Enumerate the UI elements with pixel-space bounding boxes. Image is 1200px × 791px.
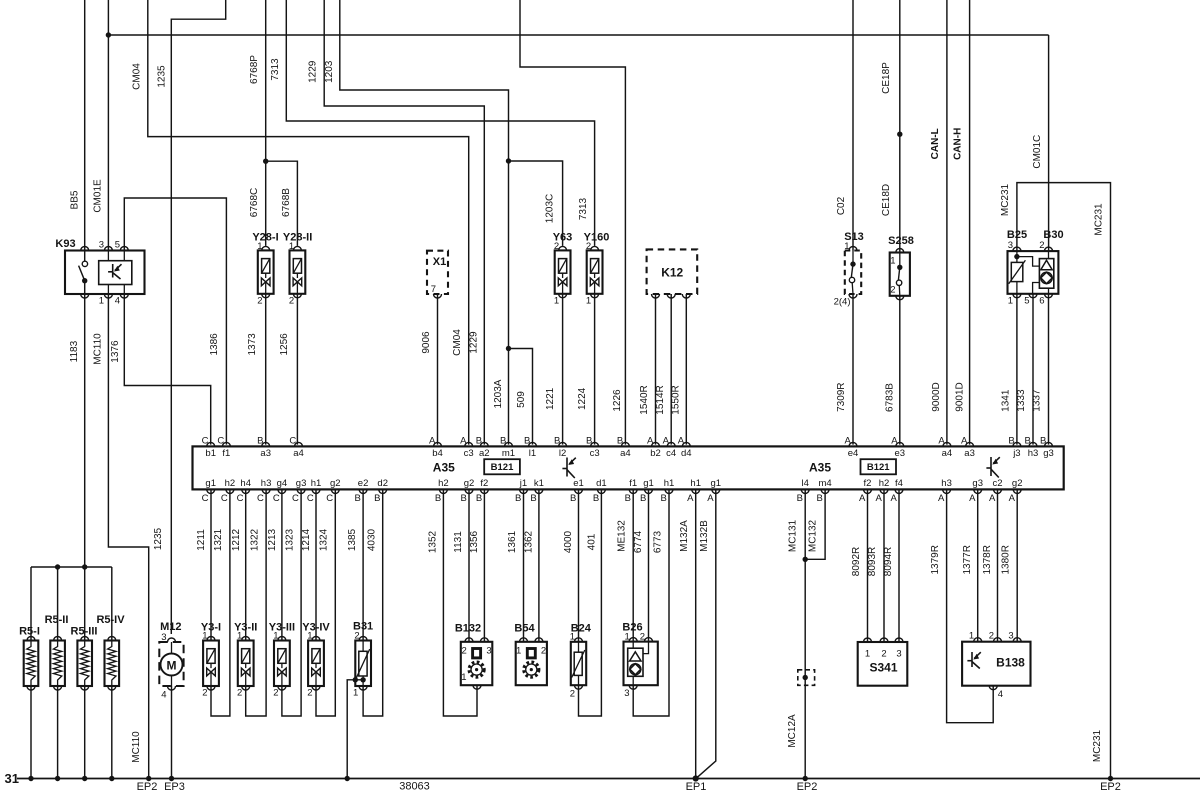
- svg-text:3: 3: [99, 240, 104, 251]
- solenoid valve Y28-II: [290, 250, 306, 293]
- wire 6768B branch to Y28-II: [266, 161, 298, 246]
- svg-text:4: 4: [998, 689, 1003, 700]
- svg-text:h4: h4: [240, 478, 251, 489]
- connector MC12A inline (dashed): [798, 670, 815, 686]
- svg-text:d2: d2: [377, 478, 388, 489]
- svg-text:B: B: [530, 493, 536, 504]
- node 1203A/509 junction: [506, 346, 511, 351]
- B25 thermistor element: [1011, 262, 1023, 281]
- svg-text:g2: g2: [1012, 478, 1023, 489]
- svg-text:C: C: [221, 493, 228, 504]
- wire 6773 (B26 return to ECU h1): [633, 489, 669, 716]
- svg-text:g1: g1: [205, 478, 216, 489]
- A35 internal transistor symbol (right): [986, 457, 999, 478]
- svg-text:h1: h1: [690, 478, 701, 489]
- A35 bottom pin f4 (A): [895, 489, 903, 493]
- wire 4000 (ECU to B24 pin1): [578, 489, 580, 641]
- svg-text:8094R: 8094R: [883, 547, 894, 576]
- svg-text:h1: h1: [664, 478, 675, 489]
- switch S13: [845, 251, 861, 295]
- svg-text:C: C: [292, 493, 299, 504]
- svg-text:R5-III: R5-III: [71, 626, 98, 638]
- svg-text:6783B: 6783B: [884, 383, 895, 412]
- svg-text:1214: 1214: [301, 528, 312, 551]
- A35 bottom pin c2 (A): [994, 489, 1002, 493]
- wire 1226 (to ECU pin a4): [520, 0, 625, 445]
- svg-text:A: A: [859, 493, 866, 504]
- svg-text:1: 1: [202, 631, 207, 642]
- svg-text:l4: l4: [801, 478, 808, 489]
- A35 bottom pin g2 (A): [1013, 489, 1021, 493]
- wire MC132 (ECU m4 joining MC131): [805, 489, 825, 559]
- svg-text:MC231: MC231: [1094, 203, 1105, 236]
- svg-text:1226: 1226: [612, 389, 623, 412]
- A35 top pin b2 (A): [652, 442, 660, 446]
- A35 bottom pin f1 (B): [629, 489, 637, 493]
- wire 1229 (to ECU pin a2): [324, 0, 484, 445]
- svg-text:A35: A35: [809, 461, 831, 475]
- A35 bottom pin h1 (C): [312, 489, 320, 493]
- svg-text:2: 2: [890, 285, 895, 296]
- svg-text:CAN-L: CAN-L: [930, 128, 941, 159]
- svg-text:B: B: [460, 493, 466, 504]
- B31 thermistor element: [359, 651, 367, 676]
- svg-text:1221: 1221: [545, 387, 556, 410]
- svg-text:1213: 1213: [267, 528, 278, 551]
- svg-text:B: B: [257, 436, 263, 447]
- svg-text:h3: h3: [1028, 448, 1039, 459]
- wire 1203 (to Y63 / ECU pins m1,l1): [340, 0, 509, 445]
- A35 bottom pin h3 (A): [943, 489, 951, 493]
- svg-text:6: 6: [1039, 296, 1044, 307]
- svg-text:K93: K93: [55, 238, 75, 250]
- sensor B54 (speed sensor): [516, 642, 547, 685]
- A35 top pin e3 (A): [896, 442, 904, 446]
- wire 1379R (ECU h3 to B138 pin4 return): [947, 489, 994, 722]
- svg-text:R5-II: R5-II: [45, 614, 69, 626]
- svg-text:A: A: [938, 493, 945, 504]
- svg-text:a3: a3: [260, 448, 271, 459]
- node R5-I ground junction: [28, 776, 33, 781]
- svg-text:C: C: [289, 436, 296, 447]
- svg-text:B: B: [1008, 436, 1014, 447]
- svg-text:1: 1: [844, 241, 849, 252]
- wire 1356 (ECU to B132 pin3): [483, 489, 485, 641]
- svg-text:A: A: [707, 493, 714, 504]
- wire 1362 (ECU to B54 pin2): [538, 489, 540, 641]
- A35 bottom pin h1 (A): [692, 489, 700, 493]
- svg-text:38063: 38063: [399, 781, 430, 791]
- resistor R5-I (glow plug): [24, 641, 39, 687]
- svg-text:A: A: [961, 436, 968, 447]
- solenoid valve Y63: [555, 250, 571, 293]
- svg-text:1376: 1376: [110, 340, 121, 363]
- svg-text:9000D: 9000D: [931, 382, 942, 411]
- B30 sensor sub-box: [1039, 259, 1053, 289]
- wire 1373 (Y28-I to ECU a3): [265, 294, 267, 445]
- A35 bottom pin h2 (B): [439, 489, 447, 493]
- svg-text:1: 1: [516, 646, 521, 657]
- node EP1 ground junction: [693, 775, 699, 781]
- svg-text:e2: e2: [358, 478, 369, 489]
- svg-text:1379R: 1379R: [930, 545, 941, 574]
- svg-text:1: 1: [586, 296, 591, 307]
- A35 top pin c4 (A): [667, 442, 675, 446]
- svg-text:1337: 1337: [1032, 389, 1043, 412]
- svg-text:1: 1: [307, 631, 312, 642]
- node CM01E tap junction: [106, 32, 111, 37]
- svg-text:1203A: 1203A: [493, 379, 504, 408]
- svg-text:A: A: [663, 436, 670, 447]
- svg-text:1131: 1131: [453, 531, 464, 553]
- B54 toothed wheel: [524, 662, 539, 677]
- svg-text:6773: 6773: [653, 530, 664, 553]
- svg-text:5: 5: [1024, 296, 1029, 307]
- svg-text:f1: f1: [629, 478, 637, 489]
- svg-text:EP2: EP2: [1100, 781, 1121, 791]
- svg-text:1341: 1341: [1001, 389, 1012, 412]
- relay K12: [647, 249, 698, 294]
- A35 top pin m1 (B): [505, 442, 513, 446]
- svg-text:CE18D: CE18D: [881, 184, 892, 216]
- svg-text:B: B: [355, 493, 361, 504]
- B132 hall element: [473, 649, 481, 658]
- K93 switch contact: [84, 251, 86, 262]
- svg-text:B: B: [570, 493, 576, 504]
- svg-text:CE18P: CE18P: [881, 62, 892, 94]
- svg-text:g1: g1: [643, 478, 654, 489]
- svg-text:B132: B132: [455, 623, 481, 635]
- wire R5-IV to ground bus 31: [111, 686, 113, 779]
- svg-text:1378R: 1378R: [982, 545, 993, 574]
- solenoid valve Y160: [587, 250, 603, 293]
- svg-text:B: B: [476, 436, 482, 447]
- wire 8092R (ECU to S341 pin1): [867, 489, 869, 642]
- svg-text:B: B: [640, 493, 646, 504]
- svg-text:f2: f2: [864, 478, 872, 489]
- wire MC110 (K93 pin1 to ground EP2): [108, 294, 148, 779]
- node M12 ground junction EP3: [169, 776, 174, 781]
- svg-text:1323: 1323: [284, 528, 295, 551]
- wire 1221 (Y63 to ECU l2): [562, 294, 564, 445]
- svg-text:R5-I: R5-I: [19, 626, 40, 638]
- A35 bottom pin g4 (C): [278, 489, 286, 493]
- A35 bottom pin h4 (C): [242, 489, 250, 493]
- svg-text:h3: h3: [261, 478, 272, 489]
- svg-text:B: B: [1024, 436, 1030, 447]
- wire 1224 (Y160 to ECU c3): [594, 294, 596, 445]
- wire 1540R (K12 to ECU b2): [655, 294, 657, 445]
- svg-text:B: B: [586, 436, 592, 447]
- wire 1514R (K12 to ECU c4): [670, 294, 672, 445]
- solenoid valve Y3-IV: [308, 641, 324, 687]
- svg-text:1: 1: [865, 649, 870, 660]
- A35 bottom pin g2 (B): [465, 489, 473, 493]
- svg-text:g3: g3: [296, 478, 307, 489]
- svg-text:1550R: 1550R: [670, 385, 681, 414]
- A35 top pin f1 (C): [222, 442, 230, 446]
- svg-text:B: B: [374, 493, 380, 504]
- wire 1378R (ECU to B138 pin2): [997, 489, 999, 641]
- svg-text:3: 3: [161, 632, 166, 643]
- svg-text:2: 2: [570, 689, 575, 700]
- svg-text:1540R: 1540R: [639, 385, 650, 414]
- wire 8094R (ECU to S341 pin3): [898, 489, 900, 642]
- svg-text:K12: K12: [661, 265, 683, 279]
- A35 top pin a3 (A): [966, 442, 974, 446]
- svg-text:h2: h2: [438, 478, 449, 489]
- svg-text:1235: 1235: [153, 527, 164, 550]
- svg-text:B: B: [625, 493, 631, 504]
- resistor R5-IV (glow plug): [105, 641, 120, 687]
- svg-text:1385: 1385: [347, 528, 358, 551]
- wire 401 (B24 return to ECU d1): [579, 489, 602, 716]
- sensor B24 (temperature): [571, 642, 586, 685]
- svg-text:C: C: [307, 493, 314, 504]
- svg-text:j1: j1: [519, 478, 527, 489]
- connector X1: [427, 251, 448, 294]
- svg-text:B: B: [1040, 436, 1046, 447]
- svg-text:a3: a3: [964, 448, 975, 459]
- sensor B138: [962, 642, 1030, 686]
- svg-text:j3: j3: [1012, 448, 1020, 459]
- wire 1352 (B132 return to ECU h2): [443, 489, 477, 716]
- svg-text:c3: c3: [464, 448, 474, 459]
- svg-text:1322: 1322: [249, 528, 260, 551]
- sensor B132 (speed sensor): [461, 642, 493, 685]
- svg-text:1321: 1321: [213, 528, 224, 551]
- K93 driver sub-box: [99, 261, 132, 285]
- svg-text:m1: m1: [502, 448, 515, 459]
- svg-text:1203: 1203: [324, 60, 335, 83]
- svg-text:R5-IV: R5-IV: [96, 614, 125, 626]
- svg-text:3: 3: [624, 688, 629, 699]
- svg-text:M: M: [167, 658, 177, 672]
- svg-text:5: 5: [115, 240, 120, 251]
- svg-text:b4: b4: [432, 448, 443, 459]
- wire 6774 (ECU to B26 pin2): [648, 489, 650, 641]
- A35 bottom pin k1 (B): [535, 489, 543, 493]
- resistor R5-II (glow plug): [50, 641, 65, 687]
- svg-text:C02: C02: [836, 196, 847, 215]
- svg-text:e1: e1: [573, 478, 584, 489]
- svg-text:1361: 1361: [507, 530, 518, 553]
- wire 1333 (B25 pin5 to ECU h3): [1032, 294, 1034, 445]
- wire 1341 (B25 pin1 to ECU j3): [1016, 294, 1018, 445]
- svg-text:MC110: MC110: [93, 333, 104, 365]
- wire CAN-H (to ECU pin a3): [969, 0, 971, 445]
- svg-text:B: B: [797, 493, 803, 504]
- svg-text:A: A: [875, 493, 882, 504]
- svg-text:c4: c4: [666, 448, 676, 459]
- A35 top pin a4 (C): [295, 442, 303, 446]
- svg-text:1324: 1324: [319, 528, 330, 551]
- K93 transistor symbol U: [108, 264, 121, 279]
- wire 1235 (feed to M12 pin 3): [171, 0, 225, 634]
- wire MC131 (ECU l4 down to EP2): [804, 489, 806, 778]
- svg-text:2: 2: [989, 631, 994, 642]
- wire 1324 (Y3-IV return to ECU): [316, 489, 335, 716]
- svg-text:f2: f2: [480, 478, 488, 489]
- wire 509 branch to ECU pin l1: [509, 349, 533, 445]
- wire C02 (to switch S13): [852, 0, 854, 251]
- svg-text:2: 2: [462, 646, 467, 657]
- A35 internal transistor symbol (left): [562, 458, 575, 479]
- wire 1322 (Y3-II return to ECU): [246, 489, 266, 716]
- A35 top pin l1 (B): [529, 442, 537, 446]
- B24 thermistor element: [574, 652, 582, 675]
- A35 bottom pin g1 (B): [645, 489, 653, 493]
- A35 bottom pin g1 (C): [207, 489, 215, 493]
- svg-text:h1: h1: [311, 478, 322, 489]
- svg-text:2: 2: [354, 631, 359, 642]
- wire 1212 (ECU feed to Y3-II): [245, 489, 247, 640]
- A35 top pin d4 (A): [682, 442, 690, 446]
- svg-text:7313: 7313: [578, 197, 589, 220]
- wire 1550R (K12 to ECU d4): [685, 294, 687, 445]
- svg-text:a4: a4: [293, 448, 304, 459]
- A35 bottom pin g1 (A): [712, 489, 720, 493]
- svg-text:8093R: 8093R: [867, 547, 878, 576]
- svg-text:X1: X1: [433, 256, 446, 268]
- A35 top pin a3 (B): [262, 442, 270, 446]
- svg-text:EP2: EP2: [797, 781, 818, 791]
- node R5-IV ground junction: [109, 776, 114, 781]
- A35 bottom pin f2 (A): [864, 489, 872, 493]
- svg-text:509: 509: [516, 391, 527, 408]
- svg-text:2: 2: [257, 296, 262, 307]
- relay K93: [65, 251, 145, 295]
- svg-text:CM01C: CM01C: [1032, 135, 1043, 169]
- svg-text:31: 31: [5, 771, 19, 786]
- svg-text:C: C: [257, 493, 264, 504]
- svg-text:M132B: M132B: [699, 520, 710, 552]
- svg-text:1362: 1362: [524, 530, 535, 553]
- svg-text:1256: 1256: [279, 333, 290, 356]
- svg-text:BB5: BB5: [70, 190, 81, 209]
- svg-text:1: 1: [237, 631, 242, 642]
- wire B31 ground branch to bus 31: [347, 680, 363, 779]
- svg-text:1: 1: [890, 256, 895, 267]
- A35 bottom pin h2 (C): [226, 489, 234, 493]
- svg-text:1: 1: [257, 241, 262, 252]
- A35 bottom pin g3 (A): [974, 489, 982, 493]
- wire CM01E (to K93 pin 3): [107, 0, 109, 251]
- node R5 bus junction (R5-II): [55, 564, 60, 569]
- svg-text:B: B: [515, 493, 521, 504]
- B138 transistor symbol: [967, 652, 980, 669]
- A35 top pin b1 (C): [207, 442, 215, 446]
- module B121 (left): [484, 459, 520, 474]
- svg-text:d4: d4: [681, 448, 692, 459]
- svg-text:2(4): 2(4): [834, 297, 851, 308]
- wire R5-III to ground bus 31: [84, 686, 86, 779]
- svg-text:4: 4: [115, 296, 120, 307]
- svg-text:B121: B121: [491, 462, 514, 473]
- B132 toothed wheel: [469, 662, 484, 677]
- svg-text:e3: e3: [895, 448, 906, 459]
- svg-text:CM04: CM04: [452, 329, 463, 356]
- svg-text:C: C: [202, 436, 209, 447]
- wire 1376 (K93 pin4 to ECU b1): [124, 294, 210, 445]
- svg-text:B: B: [660, 493, 666, 504]
- svg-text:B: B: [817, 493, 823, 504]
- solenoid valve Y28-I: [258, 250, 274, 293]
- wire 6783B (S258 to ECU e3): [899, 296, 901, 445]
- svg-text:Y28-II: Y28-II: [283, 231, 312, 243]
- A35 bottom pin h2 (A): [880, 489, 888, 493]
- wire ME132 (ECU to B26 pin1): [632, 489, 634, 641]
- svg-text:B: B: [593, 493, 599, 504]
- svg-text:MC231: MC231: [1000, 183, 1011, 216]
- wire 6768P (feed to Y28 valves): [265, 0, 267, 246]
- svg-text:4000: 4000: [563, 530, 574, 553]
- node 1203/1203C junction: [506, 158, 511, 163]
- svg-text:1380R: 1380R: [1001, 545, 1012, 574]
- wire 4030 (B31 return to ECU d2): [363, 489, 383, 716]
- svg-text:1: 1: [461, 672, 466, 683]
- svg-text:2: 2: [289, 296, 294, 307]
- svg-text:C: C: [237, 493, 244, 504]
- svg-text:1386: 1386: [209, 333, 220, 356]
- B31 internal ground tap junctions: [360, 677, 365, 682]
- svg-text:1: 1: [554, 296, 559, 307]
- svg-text:g3: g3: [972, 478, 983, 489]
- wire CM01 horizontal rail y=35: [108, 34, 1048, 36]
- A35 top pin j3 (B): [1013, 442, 1021, 446]
- switch S258: [890, 253, 910, 296]
- svg-text:g1: g1: [711, 478, 722, 489]
- svg-text:B138: B138: [996, 656, 1025, 670]
- wire 1377R (ECU to B138 pin1): [977, 489, 979, 641]
- svg-text:8092R: 8092R: [851, 547, 862, 576]
- wire 1256 (Y28-II to ECU a4): [296, 294, 298, 445]
- wire 1211 (ECU feed to Y3-I): [210, 489, 212, 640]
- svg-text:MC132: MC132: [808, 519, 819, 552]
- svg-text:MC231: MC231: [1092, 729, 1103, 762]
- svg-text:1: 1: [969, 631, 974, 642]
- A35 bottom pin e2 (B): [359, 489, 367, 493]
- svg-text:1: 1: [273, 631, 278, 642]
- svg-text:CM04: CM04: [132, 63, 143, 90]
- svg-text:S341: S341: [869, 661, 897, 675]
- solenoid valve Y3-III: [274, 641, 290, 687]
- A35 bottom pin h3 (C): [262, 489, 270, 493]
- svg-text:k1: k1: [534, 478, 544, 489]
- svg-text:A: A: [1009, 493, 1016, 504]
- svg-text:401: 401: [587, 533, 598, 550]
- svg-text:C: C: [202, 493, 209, 504]
- svg-text:2: 2: [586, 241, 591, 252]
- node MC12A ground junction EP2: [803, 776, 808, 781]
- svg-text:S258: S258: [888, 235, 914, 247]
- svg-text:A: A: [844, 436, 851, 447]
- svg-text:2: 2: [881, 649, 886, 660]
- svg-text:A: A: [891, 436, 898, 447]
- wire 1213 (ECU feed to Y3-III): [281, 489, 283, 640]
- A35 bottom pin g2 (C): [331, 489, 339, 493]
- svg-text:1224: 1224: [577, 387, 588, 410]
- svg-text:B54: B54: [514, 623, 535, 635]
- svg-text:g3: g3: [1043, 448, 1054, 459]
- svg-text:A: A: [460, 436, 467, 447]
- svg-text:A: A: [429, 436, 436, 447]
- A35 bottom pin l4 (B): [801, 489, 809, 493]
- node R5 bus junction (R5-III): [82, 564, 87, 569]
- motor M12: [159, 642, 183, 686]
- switch unit S341: [858, 642, 908, 686]
- A35 top pin a4 (A): [943, 442, 951, 446]
